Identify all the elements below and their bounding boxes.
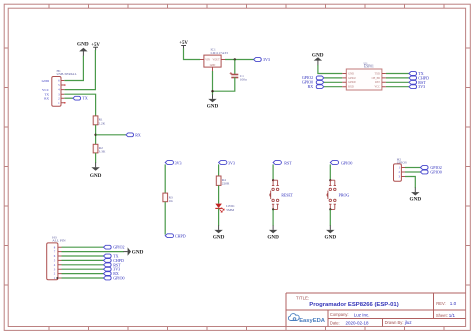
module U1 ESP01 — [342, 61, 386, 90]
svg-text:1K: 1K — [169, 199, 174, 203]
net flag CHPD (ESP01 right) — [409, 75, 429, 80]
wire H3 pin8 to GPIO2 flag — [62, 246, 104, 248]
net flag 3V3 (H3) — [104, 267, 121, 272]
svg-text:VCC: VCC — [375, 86, 381, 89]
svg-text:3V3: 3V3 — [263, 57, 270, 62]
svg-text:Drawn By:: Drawn By: — [385, 320, 404, 325]
resistor R4 — [216, 176, 230, 186]
svg-text:Date:: Date: — [330, 320, 340, 325]
svg-text:GND: GND — [132, 250, 144, 256]
svg-text:GND: GND — [325, 234, 337, 240]
svg-text:2020-02-18: 2020-02-18 — [346, 320, 370, 325]
resistor R3 — [163, 193, 173, 203]
capacitor C1 polarized — [230, 72, 247, 82]
wire H3 pin3 to 3V3 flag — [62, 268, 104, 270]
svg-text:Sheet:: Sheet: — [436, 313, 448, 318]
wire GPIO0 flag to prog button — [329, 164, 331, 180]
net flag GPIO0 (H2) — [420, 170, 441, 175]
ground flag GND (reset branch) — [267, 225, 279, 240]
svg-text:GPIO0: GPIO0 — [113, 276, 124, 281]
svg-text:GPIO2: GPIO2 — [348, 77, 356, 80]
svg-text:VCC: VCC — [42, 88, 50, 92]
wire GND to ESP01 pin GND — [318, 65, 342, 74]
svg-text:GND: GND — [267, 234, 279, 240]
net flag CHPD (H3) — [104, 258, 124, 263]
ground flag GND (prog branch) — [325, 225, 337, 240]
net flag GPIO0 (ESP01 left) — [302, 79, 324, 84]
net flag RX — [126, 132, 141, 137]
push button PROG — [327, 179, 349, 210]
svg-text:VIN: VIN — [205, 59, 210, 62]
svg-text:Programador ESP8266 (ESP-01): Programador ESP8266 (ESP-01) — [309, 302, 398, 308]
wire RST flag to reset button — [272, 164, 274, 180]
ground flag GND (below R2) — [90, 163, 102, 179]
svg-text:ALL PIN: ALL PIN — [52, 239, 66, 243]
svg-text:RST: RST — [375, 81, 380, 84]
power +5V (above H1) — [91, 43, 100, 51]
net flag TX (ESP01 right) — [409, 71, 424, 76]
wire 3V3 flag to R3 — [164, 164, 166, 193]
ground flag GND (LED branch) — [213, 225, 225, 240]
wire junction to C1 — [234, 60, 236, 75]
svg-text:RXD: RXD — [348, 86, 354, 89]
junction 3V3/C1 — [234, 58, 236, 60]
ground flag GND (H2) — [410, 188, 422, 203]
svg-text:Luz Inc.: Luz Inc. — [354, 312, 370, 317]
wire ESP01 RST to RST flag — [386, 81, 409, 83]
svg-text:GND: GND — [213, 234, 225, 240]
svg-text:3V3: 3V3 — [418, 84, 425, 89]
wire prog button to ground — [329, 209, 331, 225]
wire IC1 VOUT to 3V3 flag — [225, 59, 254, 61]
svg-text:1/1: 1/1 — [449, 313, 456, 318]
svg-text:TXD: TXD — [375, 72, 380, 75]
svg-text:REV:: REV: — [436, 301, 445, 306]
svg-text:CH_PD: CH_PD — [372, 77, 380, 80]
wire 3V3 flag to R4 — [218, 164, 220, 176]
svg-text:GPIO0: GPIO0 — [430, 170, 441, 175]
wire RX flag to ESP01 — [324, 86, 342, 88]
connector H1 USB-SERIAL — [42, 69, 77, 107]
regulator IC1 LD1117A33 — [200, 48, 228, 71]
svg-text:3.3K: 3.3K — [99, 150, 106, 154]
net flag GPIO2 (H3) — [104, 245, 125, 250]
net flag 3V3 (top of R3) — [165, 160, 181, 165]
wire +5V to IC1 VIN — [184, 48, 201, 59]
wire H3 pin6 to TX flag — [62, 255, 104, 257]
wire H3 pin7 to GND right — [62, 251, 124, 253]
net flag GPIO0 (top of prog button) — [330, 160, 352, 165]
wire IC1 GND down — [212, 71, 214, 95]
svg-text:CHPD: CHPD — [175, 233, 186, 238]
net flag TX (H3) — [104, 254, 119, 259]
net flag 3V3 (top of R4) — [219, 160, 235, 165]
svg-text:RX: RX — [308, 84, 314, 89]
svg-text:1.0: 1.0 — [450, 301, 457, 306]
net flag 3V3 (ESP01 right) — [409, 84, 425, 89]
wire GPIO0 flag to ESP01 — [324, 81, 342, 83]
wire reset button to ground — [272, 209, 274, 225]
svg-text:TITLE:: TITLE: — [296, 295, 309, 300]
svg-text:100u: 100u — [240, 78, 247, 82]
net flag GPIO2 (H2) — [420, 165, 441, 170]
svg-text:GPIO0: GPIO0 — [348, 81, 356, 84]
net flag CHPD (bottom) — [165, 233, 186, 238]
svg-text:RST: RST — [284, 160, 292, 165]
connector H2 GPIOS — [394, 157, 407, 181]
resistor R2 — [93, 144, 106, 153]
svg-text:GPIO0: GPIO0 — [341, 160, 352, 165]
svg-text:220R: 220R — [222, 182, 230, 186]
junction IC1 ground — [211, 90, 213, 92]
ground flag GND (above H1) — [77, 42, 89, 57]
TITLE BLOCK — [286, 293, 466, 327]
net flag RST (top of reset button) — [273, 160, 292, 165]
wire C1 to ground rail — [213, 77, 235, 91]
wire H3 pin4 to RST flag — [62, 264, 104, 266]
wire H2 pin2 to GPIO0 flag — [405, 171, 420, 173]
svg-text:EasyEDA: EasyEDA — [299, 318, 326, 324]
wire R1 to R2 — [95, 125, 97, 145]
push button RESET — [270, 179, 294, 210]
wire H1 pin4 VCC to +5V — [64, 50, 95, 90]
net flag RX (ESP01 left) — [308, 84, 324, 89]
wire H2 pin1 to GPIO2 flag — [405, 167, 420, 169]
net flag GPIO0 (H3) — [104, 276, 125, 281]
wire ESP01 CH_PD to CHPD flag — [386, 77, 409, 79]
svg-text:GND: GND — [210, 64, 216, 67]
connector H3 ALL PIN — [47, 235, 66, 280]
wire H1 pin3 TX to R1 — [64, 94, 95, 116]
svg-text:RESET: RESET — [281, 193, 293, 197]
junction RX node — [94, 134, 96, 136]
wire junction to RX flag — [96, 134, 126, 136]
svg-text:GND: GND — [348, 72, 354, 75]
wire H1 pin2 to TX flag — [64, 97, 73, 99]
wire H2 pin3 to ground — [405, 177, 415, 189]
wire ESP01 TXD to TX flag — [386, 73, 409, 75]
svg-text:RX: RX — [135, 132, 141, 137]
wire H3 pin2 to RX flag — [62, 273, 104, 275]
svg-text:GND: GND — [410, 196, 422, 202]
svg-text:Company:: Company: — [330, 312, 349, 317]
svg-text:2.2K: 2.2K — [98, 121, 105, 125]
net flag RST (ESP01 right) — [409, 80, 426, 85]
net flag RX (H3) — [104, 271, 119, 276]
svg-text:GPIO2: GPIO2 — [113, 245, 124, 250]
svg-text:GND: GND — [207, 103, 219, 109]
wire ESP01 VCC to 3V3 flag — [386, 86, 409, 88]
svg-text:RX: RX — [44, 97, 49, 101]
ground flag GND (regulator) — [207, 94, 219, 109]
wire R4 to LED1 — [218, 185, 220, 203]
resistor R1 — [93, 116, 105, 125]
wire H3 pin1 to GPIO0 flag — [62, 277, 104, 279]
svg-text:USB-SERIAL: USB-SERIAL — [57, 72, 77, 76]
svg-text:ESP01: ESP01 — [364, 65, 374, 69]
net flag TX — [73, 96, 88, 101]
wire R3 to CHPD flag — [164, 202, 166, 235]
net flag RST (H3) — [104, 262, 122, 267]
svg-text:LD1117A33: LD1117A33 — [211, 51, 229, 55]
wire R2 to ground — [95, 153, 97, 163]
wire H3 pin5 to CHPD flag — [62, 259, 104, 261]
ground flag GND (H3, right-pointing) — [123, 247, 143, 255]
wire GPIO2 flag to ESP01 — [324, 77, 342, 79]
svg-text:PROG: PROG — [339, 192, 350, 197]
wire H1 pin6 to GND — [64, 56, 83, 81]
ground flag GND (above ESP01) — [312, 52, 324, 65]
svg-text:GND: GND — [77, 42, 89, 48]
wire LED1 to ground — [218, 208, 220, 225]
svg-text:VOUT: VOUT — [212, 59, 220, 62]
svg-text:5MM: 5MM — [226, 208, 235, 212]
net flag GPIO2 (ESP01 left) — [302, 75, 324, 80]
svg-text:3V3: 3V3 — [228, 160, 235, 165]
net flag 3V3 (regulator output) — [254, 57, 270, 62]
svg-text:GND: GND — [42, 79, 50, 83]
svg-text:GND: GND — [90, 173, 102, 179]
svg-text:jluz: jluz — [404, 320, 413, 325]
svg-text:TX: TX — [82, 96, 87, 101]
svg-text:3V3: 3V3 — [175, 160, 182, 165]
LED LED1 — [215, 204, 235, 213]
power +5V (regulator input) — [179, 41, 188, 48]
